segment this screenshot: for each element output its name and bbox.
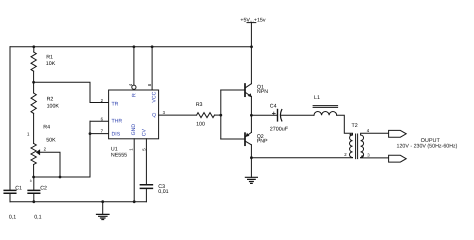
wire Q2 base: [221, 138, 244, 140]
svg-text:100: 100: [196, 121, 205, 127]
wire left rail: [9, 47, 11, 202]
svg-text:3: 3: [367, 152, 370, 157]
node reset tap: [133, 45, 136, 48]
wire base tie vertical: [220, 90, 222, 139]
resistor R1: [31, 47, 56, 83]
svg-text:5: 5: [141, 148, 146, 151]
node GND to rail: [133, 200, 136, 203]
capacitor C2: [28, 177, 47, 221]
node emitter junction: [250, 114, 253, 117]
svg-text:2: 2: [344, 152, 347, 157]
node R1-R2-TR junction: [32, 81, 35, 84]
svg-text:R3: R3: [196, 102, 203, 108]
svg-text:R1: R1: [46, 54, 53, 60]
node R4 bottom: [32, 176, 35, 179]
transistor Q2: [245, 115, 268, 177]
capacitor C4: [270, 104, 289, 133]
svg-text:Q: Q: [152, 113, 156, 119]
wire C4 to L1: [281, 114, 314, 116]
wire top rail: [10, 46, 252, 48]
svg-text:7: 7: [101, 129, 104, 134]
svg-text:DIS: DIS: [112, 132, 121, 138]
power +5V...+15v: [240, 17, 265, 47]
svg-text:4: 4: [367, 128, 370, 133]
wire TR net: [34, 82, 109, 102]
wire T2 primary return: [251, 157, 352, 159]
node R3 to bases: [219, 114, 222, 117]
wire DIS stub: [90, 133, 109, 135]
potentiometer R4: [27, 125, 56, 183]
wire emitter to C4: [251, 114, 277, 116]
capacitor C3: [140, 139, 168, 202]
wire THR/DIS vertical: [89, 121, 91, 177]
svg-text:PNP: PNP: [257, 138, 268, 144]
svg-text:C2: C2: [40, 186, 47, 192]
reset inversion bubble: [132, 85, 136, 89]
wire bottom rail: [10, 201, 146, 203]
svg-text:120V - 230V (50Hz-60Hz): 120V - 230V (50Hz-60Hz): [397, 144, 458, 150]
svg-text:R4: R4: [43, 125, 50, 131]
transistor Q1: [245, 47, 268, 116]
R4 wiper arrow: [36, 149, 60, 177]
inductor L1: [313, 95, 338, 115]
output port upper: [389, 130, 407, 137]
svg-text:0,1: 0,1: [9, 215, 16, 221]
node ground tap: [101, 200, 104, 203]
svg-text:10K: 10K: [46, 61, 56, 67]
wire GND pin 1: [133, 139, 135, 202]
wire THR stub: [90, 120, 109, 122]
op-amp U1 NE555 timer body: [101, 83, 166, 158]
svg-text:TR: TR: [112, 102, 119, 108]
wire R4 bottom to THR/DIS: [34, 176, 90, 178]
wire Q1 base: [221, 89, 244, 91]
ground (bottom rail): [97, 202, 110, 220]
wire T2 secondary top: [361, 133, 389, 135]
svg-text:GND: GND: [131, 124, 137, 136]
svg-text:T2: T2: [352, 123, 358, 129]
capacitor C1: [4, 186, 22, 221]
svg-text:0,01: 0,01: [158, 189, 168, 195]
node DIS junction: [89, 132, 92, 135]
svg-text:100K: 100K: [47, 104, 60, 110]
wire L1 to T2 primary: [337, 115, 353, 135]
svg-text:VCC: VCC: [151, 91, 157, 102]
svg-text:2700uF: 2700uF: [270, 127, 289, 133]
wire reset pin 4: [133, 47, 135, 85]
svg-text:R: R: [132, 93, 138, 97]
svg-text:C1: C1: [15, 186, 22, 192]
svg-text:NE555: NE555: [111, 152, 127, 158]
svg-text:C4: C4: [270, 104, 277, 110]
wire output pin 3: [159, 114, 197, 116]
svg-text:3: 3: [30, 179, 32, 183]
svg-text:CV: CV: [142, 129, 148, 137]
transformer T2: [344, 123, 370, 158]
svg-text:0,1: 0,1: [34, 215, 41, 221]
svg-text:1: 1: [128, 148, 133, 151]
node collector to transformer return: [250, 156, 253, 159]
svg-text:THR: THR: [112, 119, 123, 125]
node R1 top: [32, 45, 35, 48]
resistor R3: [196, 102, 221, 128]
svg-text:NPN: NPN: [257, 89, 268, 95]
svg-text:R2: R2: [47, 97, 54, 103]
svg-text:1: 1: [27, 132, 30, 137]
svg-text:3: 3: [163, 110, 166, 115]
resistor R2: [31, 82, 59, 143]
wire T2 secondary bottom: [361, 157, 389, 159]
ground (Q2 collector): [245, 177, 257, 183]
node VCC tap: [151, 45, 154, 48]
node C2 bottom: [32, 200, 35, 203]
svg-text:L1: L1: [314, 95, 320, 101]
wire VCC pin 8: [151, 47, 153, 90]
node supply junction: [250, 45, 253, 48]
output port lower: [389, 155, 407, 162]
node wiper tie: [59, 176, 62, 179]
svg-text:50K: 50K: [46, 138, 56, 144]
svg-text:2: 2: [44, 146, 47, 151]
svg-text:8: 8: [147, 83, 152, 86]
